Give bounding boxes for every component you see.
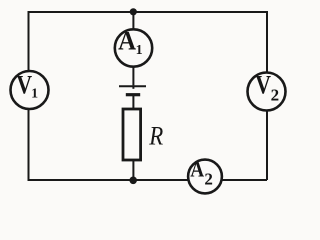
svg-text:2: 2	[204, 170, 213, 189]
wire left	[28, 11, 30, 180]
wire stub below battery long plate	[132, 85, 134, 88]
voltmeter V1 circle	[11, 71, 49, 109]
svg-text:V: V	[255, 71, 271, 100]
resistor R body	[123, 109, 141, 160]
ammeter A2 circle	[188, 160, 222, 194]
battery cell long plate	[119, 85, 146, 87]
svg-text:1: 1	[31, 86, 38, 101]
voltmeter V1 label	[16, 70, 38, 101]
wire resistor to bottom node	[132, 160, 134, 180]
ammeter A1 label	[118, 26, 143, 58]
node bottom junction dot	[129, 177, 137, 185]
svg-text:V: V	[16, 70, 32, 99]
voltmeter V2 circle	[248, 73, 286, 111]
wire bottom	[28, 179, 268, 181]
svg-text:1: 1	[136, 43, 143, 58]
svg-text:A: A	[190, 157, 204, 182]
wire middle branch upper	[132, 12, 134, 85]
wire right	[266, 11, 268, 180]
svg-text:R: R	[148, 121, 163, 150]
wire battery to resistor	[132, 95, 134, 110]
wire top	[29, 11, 268, 13]
ammeter A1 circle	[115, 29, 152, 66]
ammeter A2 label	[190, 157, 213, 189]
battery cell short thick plate	[126, 93, 140, 96]
node top junction dot	[130, 8, 137, 15]
svg-text:2: 2	[271, 85, 280, 104]
voltmeter V2 label	[255, 71, 279, 105]
svg-text:A: A	[118, 26, 136, 55]
